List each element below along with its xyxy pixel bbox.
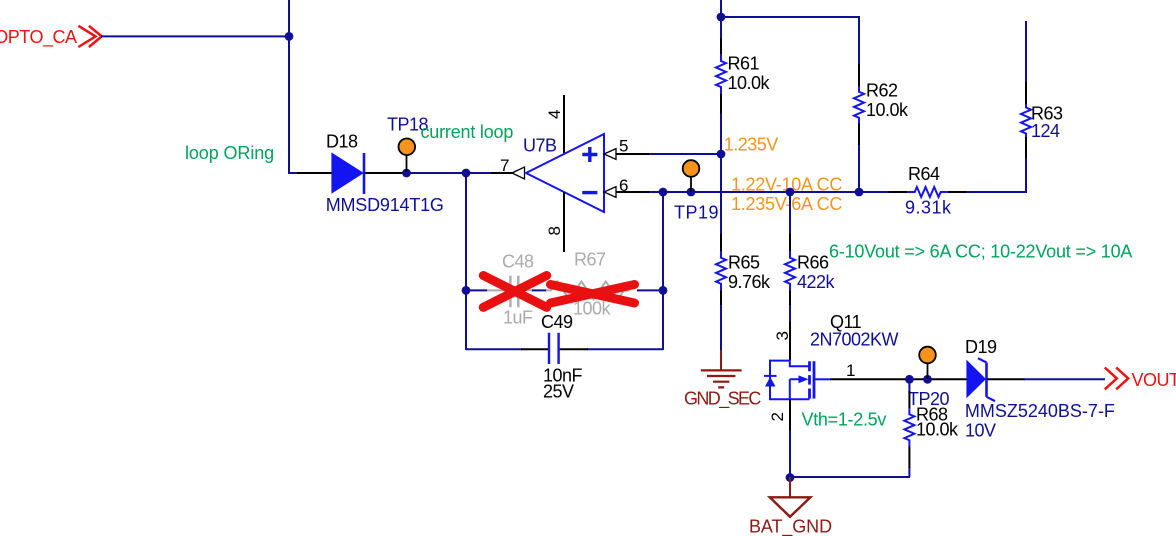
junction pin6 feedback xyxy=(659,188,668,197)
svg-text:10V: 10V xyxy=(965,421,996,441)
svg-text:R61: R61 xyxy=(728,54,760,74)
svg-text:VOUT: VOUT xyxy=(1132,370,1176,390)
svg-text:3: 3 xyxy=(773,331,792,340)
wire R63 vertical xyxy=(1024,21,1026,192)
test point TP19 xyxy=(683,160,700,192)
junction at feedback node xyxy=(462,169,471,178)
resistor R61 pins xyxy=(720,38,722,114)
port OPTO_CA chevron xyxy=(78,26,101,47)
port VOUT chevron xyxy=(1105,368,1128,390)
svg-text:D19: D19 xyxy=(965,337,997,357)
no-fit cross over C48 xyxy=(483,276,546,308)
svg-text:422k: 422k xyxy=(797,272,836,292)
resistor R64 pins xyxy=(889,191,967,193)
junction at TP18 xyxy=(402,169,411,178)
op-amp pin 8 xyxy=(563,192,565,252)
feedback wire left vertical xyxy=(465,173,467,350)
wire to VOUT xyxy=(1024,378,1105,380)
wire R62 vertical xyxy=(858,16,860,193)
svg-text:R67: R67 xyxy=(574,249,606,269)
svg-text:R65: R65 xyxy=(728,253,760,273)
junction feedback right xyxy=(659,286,668,295)
wire to op-amp output xyxy=(466,172,492,174)
op-amp U7B pin 7 xyxy=(491,167,525,179)
wire R68 vertical xyxy=(908,379,910,477)
ground GND_SEC xyxy=(701,350,742,387)
resistor R63 pins xyxy=(1025,82,1027,158)
test point TP18 xyxy=(399,139,416,174)
svg-text:TP19: TP19 xyxy=(674,203,719,223)
feedback wire top horizontal xyxy=(466,289,663,291)
svg-text:6-10Vout => 6A CC; 10-22Vout =: 6-10Vout => 6A CC; 10-22Vout => 10A xyxy=(829,242,1132,262)
svg-text:6: 6 xyxy=(619,176,628,195)
test point TP20 xyxy=(919,347,936,379)
ground BAT_GND xyxy=(770,477,811,517)
transistor Q11 pin 3 xyxy=(789,322,791,360)
op-amp pin 4 xyxy=(563,95,565,153)
wire OPTO_CA horizontal xyxy=(101,35,289,37)
wire corner to D18 xyxy=(288,172,303,174)
resistor R65 pins xyxy=(720,234,722,305)
no-fit cross over R67 xyxy=(551,285,635,304)
feedback wire right vertical xyxy=(662,192,664,350)
capacitor C49 xyxy=(549,333,559,364)
svg-text:1: 1 xyxy=(846,361,855,380)
diode D19 xyxy=(966,358,1025,401)
resistor R66 xyxy=(785,251,795,290)
wire R65 vertical xyxy=(720,154,722,351)
svg-text:Vth=1-2.5v: Vth=1-2.5v xyxy=(802,410,887,430)
svg-text:R62: R62 xyxy=(866,81,898,101)
resistor R65 xyxy=(716,251,726,290)
capacitor C48 leads (not fitted) xyxy=(487,289,532,291)
svg-text:U7B: U7B xyxy=(523,136,557,156)
wire Q11 source down xyxy=(789,430,791,478)
transistor Q11 xyxy=(764,360,831,400)
junction BAT_GND xyxy=(786,473,795,482)
junction feedback left xyxy=(462,286,471,295)
wire pin6 net horizontal xyxy=(649,191,1026,193)
svg-text:2N7002KW: 2N7002KW xyxy=(810,330,899,350)
svg-text:BAT_GND: BAT_GND xyxy=(749,517,832,537)
junction 1.235V node xyxy=(717,150,726,159)
svg-text:OPTO_CA: OPTO_CA xyxy=(0,27,77,48)
svg-text:MMSZ5240BS-7-F: MMSZ5240BS-7-F xyxy=(965,401,1115,421)
svg-text:current loop: current loop xyxy=(421,122,514,142)
svg-text:25V: 25V xyxy=(543,381,574,401)
resistor R62 xyxy=(854,86,864,123)
junction TP20 xyxy=(923,375,932,384)
svg-text:1.235V: 1.235V xyxy=(724,135,779,155)
junction R66 tap xyxy=(786,188,795,197)
junction R62 bottom xyxy=(855,188,864,197)
op-amp U7B body xyxy=(526,134,604,212)
diode D18 xyxy=(297,152,407,194)
junction R68 top xyxy=(905,375,914,384)
resistor R66 pins xyxy=(789,234,791,305)
transistor Q11 pin 1 wire xyxy=(830,378,967,380)
junction TP19 xyxy=(687,188,696,197)
svg-text:100k: 100k xyxy=(573,299,612,319)
op-amp pin 6 xyxy=(604,187,650,198)
svg-text:loop ORing: loop ORing xyxy=(185,143,274,163)
junction at OPTO_CA tap xyxy=(285,32,294,41)
svg-text:C49: C49 xyxy=(541,312,573,332)
wire R68 bottom to BAT_GND xyxy=(790,476,910,478)
capacitor C49 leads xyxy=(521,348,588,350)
resistor R63 xyxy=(1021,104,1031,137)
svg-text:R66: R66 xyxy=(797,253,829,273)
svg-text:8: 8 xyxy=(545,226,564,235)
wire D18 to feedback node xyxy=(406,172,467,174)
svg-text:9.76k: 9.76k xyxy=(728,272,771,292)
svg-text:MMSD914T1G: MMSD914T1G xyxy=(326,195,444,215)
svg-text:GND_SEC: GND_SEC xyxy=(684,388,761,409)
svg-text:10.0k: 10.0k xyxy=(728,73,771,93)
transistor Q11 pin 2 xyxy=(789,399,791,431)
feedback wire bottom horizontal xyxy=(466,348,663,350)
svg-text:9.31k: 9.31k xyxy=(905,198,952,218)
svg-text:124: 124 xyxy=(1031,121,1060,141)
wire R61 top xyxy=(720,0,722,155)
svg-text:1uF: 1uF xyxy=(503,308,533,328)
wire top rail xyxy=(721,16,860,18)
svg-text:1.235V-6A CC: 1.235V-6A CC xyxy=(731,194,842,214)
svg-text:C48: C48 xyxy=(502,252,534,272)
resistor R68 pins xyxy=(908,391,910,468)
op-amp pin 5 xyxy=(604,149,650,160)
resistor R67 (not fitted) xyxy=(546,281,629,299)
svg-text:D18: D18 xyxy=(326,132,358,152)
svg-text:2: 2 xyxy=(768,412,787,421)
svg-text:10.0k: 10.0k xyxy=(916,420,959,440)
svg-text:10.0k: 10.0k xyxy=(866,100,909,120)
junction top rail xyxy=(717,13,726,22)
resistor R64 xyxy=(908,187,948,197)
wire vertical from top edge xyxy=(288,0,290,174)
svg-text:5: 5 xyxy=(619,136,628,155)
wire R66 vertical xyxy=(789,192,791,323)
capacitor C48 (not fitted) xyxy=(510,276,518,308)
resistor R62 pins xyxy=(858,64,860,145)
svg-text:4: 4 xyxy=(545,110,564,119)
wire pin5 to 1.235V node xyxy=(649,153,722,155)
svg-text:R64: R64 xyxy=(908,164,940,184)
svg-text:7: 7 xyxy=(500,156,509,175)
resistor R61 xyxy=(716,54,726,94)
resistor R68 xyxy=(904,408,914,446)
